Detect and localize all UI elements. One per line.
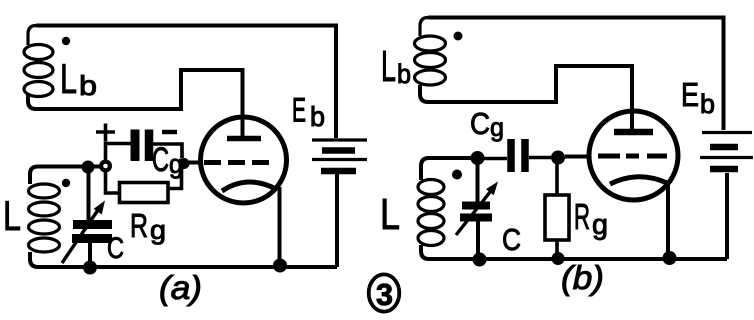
svg-text:R: R <box>574 196 590 237</box>
svg-text:L: L <box>60 55 77 102</box>
polarity dot for L (a) <box>62 179 70 187</box>
wire: bottom rail (a) <box>30 252 337 267</box>
plate bar (b) <box>614 129 653 136</box>
wire: top rail B+ from Lb top to battery (a) <box>36 26 336 139</box>
wire: node to Rg (a) bottom branch <box>106 172 120 193</box>
capacitor C (a) variable, leads <box>89 167 91 267</box>
node: grid-side dot (a) <box>179 158 190 169</box>
node: grid node dot (b) <box>551 151 565 165</box>
wire: battery (a) bottom lead <box>335 174 339 267</box>
svg-text:g: g <box>490 112 504 142</box>
wire: Rg (a) to grid node dot <box>168 165 182 189</box>
svg-text:b: b <box>397 59 411 89</box>
minus sign (a) <box>162 130 177 135</box>
wire: grid node down to Rg (b) <box>555 164 559 195</box>
wire: Cg (a) to grid node dot <box>153 144 182 158</box>
inductor Lb (a) coil loops <box>24 26 53 110</box>
wire: Rg (b) bottom lead <box>555 240 559 259</box>
arrow of variable capacitor C (a) <box>62 201 105 264</box>
arrow of variable capacitor C (b) <box>456 182 498 236</box>
node: cathode junction dot (a) <box>273 259 287 273</box>
tank loop (b): inductor L <box>418 158 478 246</box>
svg-text:g: g <box>592 209 608 241</box>
resistor Rg (a) box <box>120 183 169 203</box>
wire: battery (b) bottom lead <box>725 173 729 259</box>
plus sign (a) <box>96 124 115 142</box>
svg-text:(b): (b) <box>561 259 604 296</box>
svg-text:C: C <box>470 106 490 141</box>
node: junction dot at tank bottom (b) <box>473 253 487 267</box>
plate bar (a) <box>227 136 261 142</box>
svg-text:L: L <box>381 42 396 91</box>
capacitor C (b) plates <box>462 202 490 210</box>
svg-text:b: b <box>79 70 97 101</box>
battery Eb (a) plates <box>312 140 367 171</box>
svg-text:E: E <box>292 92 306 130</box>
svg-text:E: E <box>681 76 699 113</box>
node: open-circle grid node (a) <box>101 162 110 171</box>
wire: tank node to Cg (b) <box>484 157 507 161</box>
resistor Rg (b) box <box>545 195 569 240</box>
svg-text:b: b <box>310 101 325 132</box>
polarity dot for Lb (b) <box>454 32 463 41</box>
node: Rg bottom junction dot (b) <box>552 252 565 265</box>
figure number 3 circled <box>369 274 400 311</box>
capacitor Cg (a) plates <box>131 130 140 162</box>
node: junction dot at C top (a) <box>82 161 95 174</box>
svg-text:L: L <box>3 192 21 239</box>
svg-text:C: C <box>152 141 169 179</box>
wire: Lb bottom to plate of tube (b) <box>428 66 632 133</box>
wire: grid lead into tube (b) <box>565 155 591 159</box>
wire: Lb bottom to plate of tube (a) <box>36 70 243 140</box>
wire: cathode lead (a) <box>278 187 282 265</box>
triode U1 (a) envelope <box>201 117 287 203</box>
inductor Lb (b) coil loops <box>415 18 446 103</box>
svg-text:R: R <box>130 207 148 244</box>
svg-text:g: g <box>150 215 166 245</box>
capacitor C (a) plates <box>73 220 112 229</box>
svg-text:3: 3 <box>376 277 393 312</box>
capacitor Cg (b) plates <box>507 139 515 172</box>
polarity dot for Lb (a) <box>62 37 70 45</box>
node: junction dot at C bottom (a) <box>83 261 97 275</box>
wire: cathode lead (b) <box>666 181 670 258</box>
polarity dot for L (b) <box>452 170 462 180</box>
svg-text:C: C <box>502 222 521 257</box>
cathode arc (a) <box>222 182 276 191</box>
grid dashes (a) <box>204 160 269 165</box>
battery Eb (b) plates <box>700 133 753 170</box>
wire: Cg (b) to grid node <box>529 156 552 160</box>
svg-text:L: L <box>380 190 400 239</box>
grid dashes (b) <box>598 154 667 159</box>
wire: bottom rail (b) <box>421 245 727 259</box>
node: cathode junction dot (b) <box>663 251 677 265</box>
svg-text:b: b <box>700 89 715 119</box>
triode U2 (b) envelope <box>589 111 678 200</box>
capacitor C (b) variable, leads <box>476 158 481 259</box>
tank loop (a): inductor L <box>29 167 106 253</box>
wire: node to Cg (a) top branch <box>106 144 132 162</box>
cathode arc (b) <box>610 177 667 184</box>
svg-text:(a): (a) <box>159 269 202 306</box>
node: junction dot at tank top (b) <box>471 151 485 165</box>
wire: top rail B+ from Lb top to battery (b) <box>428 18 724 131</box>
svg-text:C: C <box>107 232 124 265</box>
wire: grid lead into tube (a) <box>188 161 200 165</box>
